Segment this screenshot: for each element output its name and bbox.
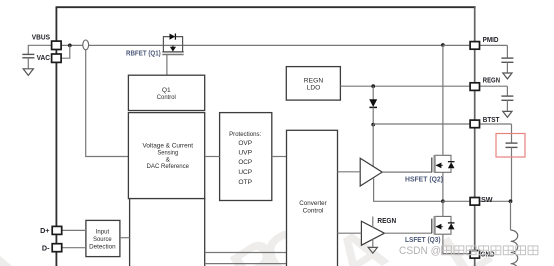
block REGN LDO — [286, 67, 340, 101]
ghost watermark letter A — [321, 212, 399, 266]
svg-text:REGN: REGN — [304, 77, 324, 84]
svg-text:Protections:: Protections: — [229, 131, 261, 138]
svg-text:D+: D+ — [40, 226, 49, 235]
svg-text:Q1: Q1 — [162, 87, 171, 94]
node junction BTST — [371, 123, 375, 127]
pin REGN — [470, 83, 479, 91]
ghost watermark letter R — [218, 223, 296, 266]
svg-text:Control: Control — [303, 208, 324, 215]
capacitor BTST bootstrap — [506, 124, 518, 201]
wire D- to Input Source Detection — [61, 247, 86, 249]
transistor LSFET Q3 — [432, 201, 470, 253]
highlight box (red) — [496, 134, 525, 158]
pin D+ — [52, 226, 62, 234]
wire Protections to Converter Control — [272, 156, 287, 158]
svg-text:UCP: UCP — [238, 169, 252, 176]
wire BTST node to HSFET driver supply — [372, 125, 374, 167]
wire to PMID pin — [443, 44, 508, 46]
node junction PMID — [441, 43, 445, 47]
wire VBUS rail — [61, 44, 83, 46]
node junction VBUS/VAC — [68, 44, 72, 48]
op-amp HSFET gate driver — [360, 158, 382, 186]
wire Converter Control to LSFET driver — [338, 232, 362, 234]
svg-text:CSDN @: CSDN @ — [399, 245, 441, 257]
svg-text:D-: D- — [42, 243, 50, 252]
wire REGN supply to LSFET driver — [372, 217, 374, 228]
drain jog — [435, 154, 443, 156]
svg-text:Source: Source — [93, 236, 112, 243]
svg-text:Converter: Converter — [299, 200, 327, 207]
drain wire from SW node — [442, 201, 444, 216]
IC outer boundary left edge — [55, 7, 57, 266]
svg-text:Control: Control — [157, 94, 176, 101]
wire SW to inductor — [510, 201, 512, 230]
pin PMID — [470, 42, 479, 50]
substrate arrow — [436, 226, 443, 228]
wire diode to BTST node — [372, 107, 374, 124]
ghost watermark letter L — [430, 211, 502, 266]
substrate arrow — [436, 164, 443, 166]
gate bar — [162, 54, 183, 56]
diode bootstrap — [369, 99, 377, 107]
wire VBUS pin to input cap — [28, 45, 51, 54]
left stub — [162, 45, 164, 51]
svg-text:OCP: OCP — [238, 159, 252, 166]
ground symbol (input) — [23, 69, 33, 76]
body arrow — [172, 45, 174, 47]
wire REGN to bootstrap diode — [372, 86, 374, 99]
block Input Source Detection — [86, 220, 120, 256]
svg-text:OVP: OVP — [238, 140, 252, 147]
pin SW — [470, 198, 479, 206]
wire column to Protections — [205, 156, 220, 158]
svg-text:DAC Reference: DAC Reference — [147, 163, 190, 170]
right stub — [182, 45, 184, 51]
body diode — [443, 155, 451, 161]
wire column to Converter Control lower 1 — [205, 252, 287, 254]
svg-text:REGN: REGN — [377, 216, 396, 225]
body diode loop — [163, 37, 169, 46]
block Voltage & Current Sensing & DAC Reference — [128, 113, 204, 199]
ghost watermark letter M — [117, 216, 201, 266]
gate bar — [431, 219, 433, 234]
svg-text:VAC: VAC — [37, 53, 50, 62]
transistor RBFET Q1 — [162, 34, 183, 76]
body diode — [443, 216, 451, 222]
source wire to GND rail — [443, 234, 470, 253]
inductor L1 — [511, 230, 518, 266]
channel bar — [434, 216, 436, 235]
block lower (unlabeled) — [130, 199, 205, 266]
wire Input Source Detection output — [120, 237, 130, 239]
svg-text:PMID: PMID — [483, 35, 499, 44]
gate wire to Q1 Control — [166, 55, 168, 76]
gate bar — [431, 158, 433, 173]
svg-text:RBFET (Q1): RBFET (Q1) — [126, 49, 161, 58]
node junction REGN — [371, 84, 375, 88]
wire VAC jog — [61, 45, 70, 58]
pin VAC — [52, 54, 62, 62]
svg-text:Voltage & Current: Voltage & Current — [143, 143, 194, 150]
source jog — [435, 171, 443, 173]
pin GND — [470, 251, 479, 259]
ghost watermark wedge bottom-left — [0, 256, 12, 266]
wire sense line to Voltage&Current block — [86, 50, 129, 157]
block Q1 Control — [128, 75, 204, 110]
channel bar — [434, 155, 436, 173]
ground symbol (LSFET driver) — [368, 247, 377, 253]
svg-text:GND: GND — [481, 250, 495, 259]
transistor HSFET Q2 — [432, 45, 455, 201]
source jog — [435, 233, 443, 235]
svg-text:BTST: BTST — [483, 115, 500, 124]
svg-text:REGN: REGN — [483, 76, 500, 85]
wire LSFET driver to gate Q3 — [384, 232, 432, 234]
wire D+ to Input Source Detection — [61, 229, 86, 231]
pin VBUS — [52, 41, 62, 49]
svg-text:Detection: Detection — [89, 244, 116, 251]
wire BTST node to BTST pin — [373, 123, 511, 125]
ground symbol (REGN cap) — [503, 111, 512, 117]
capacitor REGN external — [501, 86, 513, 117]
channel bar — [162, 51, 183, 53]
wire column to Converter Control lower 2 — [205, 263, 287, 265]
wire LSFET driver to ground — [372, 239, 374, 247]
svg-text:UVP: UVP — [238, 150, 252, 157]
capacitor PMID external — [501, 45, 513, 79]
block Protections — [220, 113, 272, 201]
wire HSFET driver to gate Q2 — [382, 171, 432, 173]
svg-text:SW: SW — [481, 195, 493, 204]
capacitor C-VAC plates — [22, 53, 34, 55]
pin BTST — [470, 120, 479, 128]
node junction SW — [441, 199, 445, 203]
wire REGN LDO to REGN pin — [340, 85, 507, 87]
drain jog — [435, 215, 443, 217]
svg-text:LDO: LDO — [307, 84, 321, 91]
svg-text:VBUS: VBUS — [32, 33, 50, 42]
wire cap to ground — [27, 58, 29, 69]
svg-text:Input: Input — [96, 229, 110, 236]
op-amp LSFET gate driver — [361, 221, 384, 245]
wire Converter Control to HSFET driver — [338, 171, 361, 173]
svg-text:OTP: OTP — [238, 179, 252, 186]
ground symbol (PMID cap) — [503, 73, 512, 79]
IC outer boundary right edge — [474, 7, 476, 266]
drain wire from PMID node — [442, 45, 444, 155]
node junction SW external — [509, 199, 513, 203]
svg-text:HSFET (Q2): HSFET (Q2) — [405, 175, 444, 184]
wire HSFET driver SW reference — [374, 178, 441, 201]
pin D- — [52, 244, 62, 252]
IC outer boundary top edge — [56, 6, 476, 8]
ghost watermark letter O — [248, 210, 329, 266]
svg-text:LSFET (Q3): LSFET (Q3) — [405, 235, 441, 244]
wire SW rail — [443, 200, 511, 202]
current sense bubble — [83, 40, 89, 50]
block Converter Control — [287, 130, 338, 266]
source wire to SW — [442, 172, 444, 201]
